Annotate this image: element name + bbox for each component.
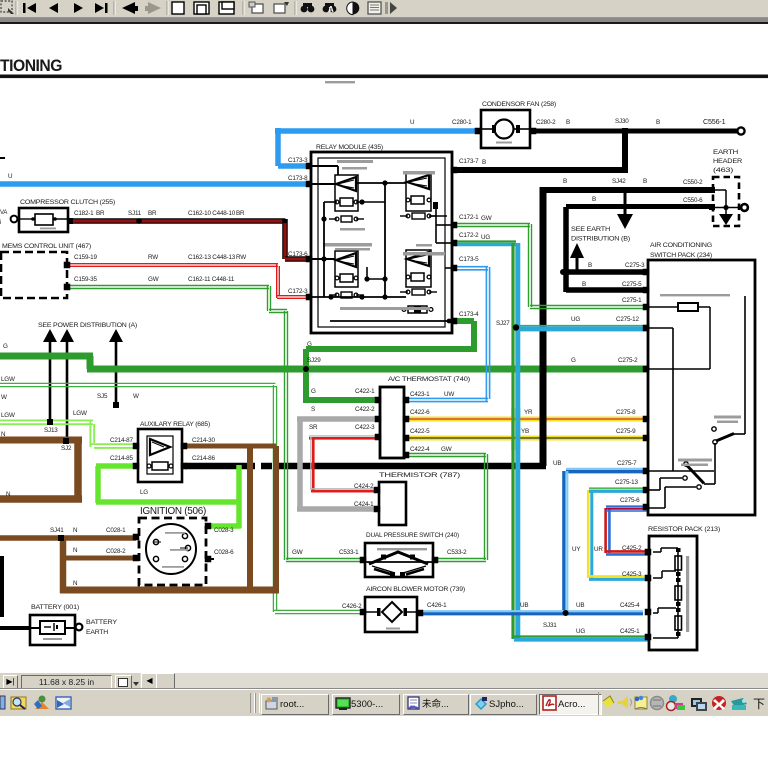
svg-text:C028-2: C028-2 [106, 548, 126, 555]
svg-text:B: B [592, 196, 596, 203]
svg-text:C275-9: C275-9 [616, 428, 636, 435]
svg-text:GW: GW [441, 446, 452, 453]
svg-text:N: N [73, 527, 78, 534]
svg-text:C533-2: C533-2 [447, 549, 467, 556]
svg-text:C275-8: C275-8 [616, 409, 636, 416]
svg-text:C162-11 C448-11: C162-11 C448-11 [188, 276, 235, 283]
svg-text:C214-85: C214-85 [110, 455, 133, 462]
svg-text:RW: RW [148, 254, 158, 261]
svg-text:(463): (463) [713, 167, 733, 174]
svg-text:C214-87: C214-87 [110, 437, 133, 444]
svg-text:C424-1: C424-1 [354, 501, 374, 508]
svg-text:U: U [410, 119, 415, 126]
svg-text:SR: SR [309, 424, 318, 431]
svg-text:GW: GW [148, 276, 159, 283]
svg-text:CONDENSOR FAN (258): CONDENSOR FAN (258) [482, 101, 556, 108]
svg-text:SJ13: SJ13 [44, 427, 58, 434]
svg-text:C275-5: C275-5 [622, 281, 642, 288]
svg-text:EARTH: EARTH [86, 629, 108, 636]
svg-text:C426-1: C426-1 [427, 602, 447, 609]
svg-text:C422-1: C422-1 [355, 388, 375, 395]
svg-text:C182-1: C182-1 [74, 210, 94, 217]
svg-text:C162-10 C448-10: C162-10 C448-10 [188, 210, 236, 217]
svg-text:COMPRESSOR CLUTCH (255): COMPRESSOR CLUTCH (255) [20, 199, 115, 206]
svg-text:C422-2: C422-2 [355, 406, 375, 413]
svg-text:IGNITION (506): IGNITION (506) [140, 505, 206, 517]
svg-text:C028-3: C028-3 [214, 527, 234, 534]
svg-text:YB: YB [521, 428, 529, 435]
svg-text:SJ42: SJ42 [612, 178, 626, 185]
svg-text:C422-3: C422-3 [355, 424, 375, 431]
svg-text:C550-6: C550-6 [683, 197, 703, 204]
svg-text:LGW: LGW [1, 376, 15, 383]
svg-text:S: S [311, 406, 315, 413]
svg-text:RESISTOR PACK (213): RESISTOR PACK (213) [648, 526, 720, 533]
svg-text:UW: UW [444, 391, 454, 398]
svg-text:C214-86: C214-86 [192, 455, 215, 462]
svg-text:BR: BR [236, 210, 245, 217]
svg-text:C275-7: C275-7 [617, 460, 637, 467]
svg-text:TIONING: TIONING [0, 57, 62, 75]
svg-text:SJ5: SJ5 [97, 393, 108, 400]
svg-text:W: W [1, 394, 7, 401]
svg-text:G: G [311, 388, 316, 395]
svg-text:RW: RW [236, 254, 246, 261]
svg-text:C173-3: C173-3 [288, 157, 308, 164]
svg-text:C028-6: C028-6 [214, 549, 234, 556]
svg-text:B: B [643, 178, 647, 185]
svg-text:B: B [482, 159, 486, 166]
svg-text:C173-7: C173-7 [459, 158, 479, 165]
svg-text:C425-3: C425-3 [622, 571, 642, 578]
svg-text:C028-1: C028-1 [106, 527, 126, 534]
svg-text:BR: BR [96, 210, 105, 217]
svg-text:LGW: LGW [73, 410, 87, 417]
svg-text:B: B [563, 178, 567, 185]
svg-text:UG: UG [571, 316, 580, 323]
svg-text:BATTERY: BATTERY [86, 619, 118, 626]
svg-text:SWITCH PACK (234): SWITCH PACK (234) [650, 252, 712, 259]
svg-text:SJ29: SJ29 [307, 357, 321, 364]
svg-text:C159-19: C159-19 [74, 254, 97, 261]
svg-text:C173-6: C173-6 [288, 251, 308, 258]
svg-text:B: B [582, 281, 586, 288]
svg-text:C275-2: C275-2 [618, 357, 638, 364]
svg-text:C425-4: C425-4 [620, 602, 640, 609]
svg-text:LG: LG [140, 489, 148, 496]
svg-text:C173-8: C173-8 [288, 175, 308, 182]
svg-text:G: G [307, 341, 312, 348]
svg-text:B: B [566, 119, 570, 126]
svg-text:C172-2: C172-2 [459, 232, 479, 239]
svg-text:EARTH: EARTH [713, 149, 739, 156]
svg-text:B: B [588, 262, 592, 269]
svg-text:U: U [8, 173, 13, 180]
svg-text:C275-3: C275-3 [625, 262, 645, 269]
svg-text:RELAY MODULE (435): RELAY MODULE (435) [316, 144, 383, 151]
svg-text:UY: UY [572, 546, 581, 553]
svg-text:C173-5: C173-5 [459, 256, 479, 263]
svg-text:C172-3: C172-3 [288, 288, 308, 295]
svg-text:C275-12: C275-12 [616, 316, 639, 323]
svg-text:SJ11: SJ11 [128, 210, 142, 217]
svg-text:MEMS CONTROL UNIT (467): MEMS CONTROL UNIT (467) [2, 243, 91, 250]
svg-text:C159-35: C159-35 [74, 276, 97, 283]
svg-text:N: N [73, 580, 78, 587]
svg-text:DUAL PRESSURE SWITCH (240): DUAL PRESSURE SWITCH (240) [366, 532, 459, 539]
svg-text:C422-6: C422-6 [410, 409, 430, 416]
svg-text:UG: UG [576, 628, 585, 635]
svg-text:UB: UB [520, 602, 528, 609]
svg-text:G: G [3, 343, 8, 350]
svg-text:C214-30: C214-30 [192, 437, 215, 444]
svg-text:W: W [133, 393, 139, 400]
svg-text:SJ30: SJ30 [615, 118, 629, 125]
svg-text:C162-13 C448-13: C162-13 C448-13 [188, 254, 236, 261]
svg-text:DISTRIBUTION (B): DISTRIBUTION (B) [571, 236, 630, 243]
svg-text:C550-2: C550-2 [683, 179, 703, 186]
svg-text:C424-2: C424-2 [354, 483, 374, 490]
svg-text:C422-5: C422-5 [410, 428, 430, 435]
svg-text:LGW: LGW [1, 412, 15, 419]
svg-text:C280-2: C280-2 [536, 119, 556, 126]
svg-text:SJ2: SJ2 [61, 445, 72, 452]
svg-text:C280-1: C280-1 [452, 119, 472, 126]
svg-text:C533-1: C533-1 [339, 549, 359, 556]
svg-text:VA: VA [0, 210, 7, 216]
svg-text:下: 下 [753, 697, 765, 711]
svg-text:A: A [328, 5, 334, 14]
svg-text:C556-1: C556-1 [703, 117, 726, 126]
svg-text:AIRCON BLOWER MOTOR (739): AIRCON BLOWER MOTOR (739) [366, 586, 465, 593]
svg-text:UB: UB [576, 602, 584, 609]
svg-text:AUXILARY RELAY (685): AUXILARY RELAY (685) [140, 421, 210, 428]
svg-text:C172-1: C172-1 [459, 214, 479, 221]
svg-text:SEE POWER DISTRIBUTION (A): SEE POWER DISTRIBUTION (A) [38, 322, 137, 329]
svg-text:SEE EARTH: SEE EARTH [571, 226, 610, 233]
svg-text:N: N [1, 431, 6, 438]
svg-text:UG: UG [481, 234, 490, 241]
svg-text:C275-1: C275-1 [622, 297, 642, 304]
svg-text:SJ31: SJ31 [543, 622, 557, 629]
svg-text:AIR CONDITIONING: AIR CONDITIONING [650, 242, 712, 249]
svg-text:i: i [0, 220, 1, 226]
svg-text:UB: UB [553, 460, 561, 467]
svg-text:G: G [571, 357, 576, 364]
svg-text:A/C THERMOSTAT (740): A/C THERMOSTAT (740) [388, 376, 470, 383]
svg-text:C275-13: C275-13 [615, 479, 638, 486]
svg-text:C425-2: C425-2 [622, 545, 642, 552]
svg-text:C173-4: C173-4 [459, 311, 479, 318]
svg-text:UR: UR [594, 546, 603, 553]
svg-text:C423-1: C423-1 [410, 391, 430, 398]
svg-text:C426-2: C426-2 [342, 603, 362, 610]
svg-text:BATTERY (001): BATTERY (001) [31, 604, 79, 611]
svg-text:C422-4: C422-4 [410, 446, 430, 453]
svg-text:N: N [6, 491, 11, 498]
svg-text:GW: GW [481, 215, 492, 222]
svg-text:THERMISTOR (787): THERMISTOR (787) [379, 472, 460, 479]
svg-text:C425-1: C425-1 [620, 628, 640, 635]
svg-text:SJ27: SJ27 [496, 320, 510, 327]
svg-text:SJ41: SJ41 [50, 527, 64, 534]
svg-text:HEADER: HEADER [713, 158, 742, 165]
svg-text:GW: GW [292, 549, 303, 556]
svg-text:B: B [656, 119, 660, 126]
svg-text:C275-6: C275-6 [620, 497, 640, 504]
svg-text:BR: BR [148, 210, 157, 217]
svg-text:N: N [73, 547, 78, 554]
svg-text:YR: YR [524, 409, 533, 416]
